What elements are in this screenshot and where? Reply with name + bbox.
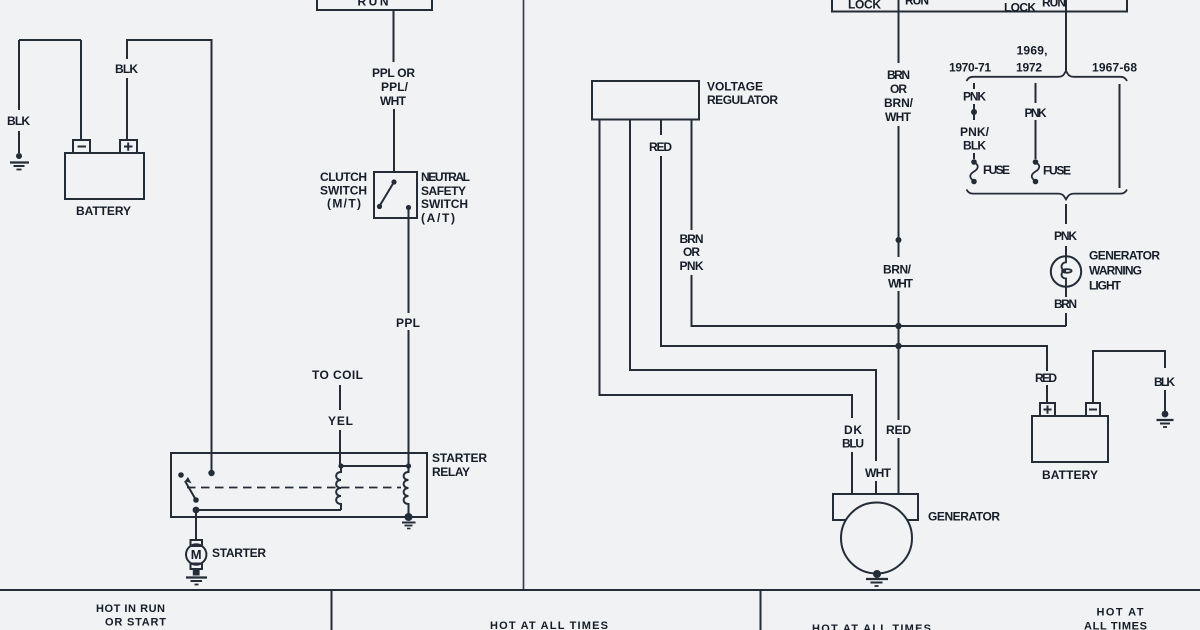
svg-text:PNK: PNK <box>963 90 986 104</box>
svg-text:ALL TIMES: ALL TIMES <box>1084 621 1147 630</box>
svg-text:BLU: BLU <box>842 437 864 451</box>
svg-text:HOT AT: HOT AT <box>1097 607 1144 619</box>
svg-text:BLK: BLK <box>7 114 30 128</box>
svg-text:PNK: PNK <box>1054 229 1077 243</box>
svg-text:RUN: RUN <box>905 0 929 8</box>
svg-text:1969,: 1969, <box>1017 44 1048 58</box>
svg-text:WHT: WHT <box>888 277 914 291</box>
svg-text:OR: OR <box>683 245 700 259</box>
svg-text:BRN: BRN <box>1054 297 1077 311</box>
svg-text:SAFETY: SAFETY <box>421 184 466 198</box>
svg-text:GENERATOR: GENERATOR <box>928 510 1000 524</box>
svg-text:RELAY: RELAY <box>432 465 470 479</box>
svg-text:LIGHT: LIGHT <box>1089 279 1122 293</box>
svg-text:PNK: PNK <box>680 259 704 273</box>
svg-text:LOCK: LOCK <box>1004 1 1036 15</box>
svg-text:SWITCH: SWITCH <box>320 184 367 198</box>
svg-text:PNK: PNK <box>1025 106 1047 120</box>
svg-text:BATTERY: BATTERY <box>1042 468 1098 482</box>
svg-text:BRN: BRN <box>887 68 910 82</box>
svg-text:BRN/: BRN/ <box>884 96 914 110</box>
svg-text:VOLTAGE: VOLTAGE <box>707 80 763 94</box>
svg-text:FUSE: FUSE <box>1043 164 1071 178</box>
svg-text:OR: OR <box>890 82 907 96</box>
svg-text:WHT: WHT <box>865 466 892 480</box>
svg-text:WARNING: WARNING <box>1089 264 1142 278</box>
svg-text:BLK: BLK <box>1154 375 1175 389</box>
svg-text:STARTER: STARTER <box>432 451 487 465</box>
svg-text:PPL OR: PPL OR <box>372 66 415 80</box>
svg-text:BATTERY: BATTERY <box>76 204 131 218</box>
svg-text:BRN/: BRN/ <box>883 263 912 277</box>
svg-text:DK: DK <box>844 423 862 437</box>
svg-text:REGULATOR: REGULATOR <box>707 93 778 107</box>
svg-text:PNK/: PNK/ <box>960 125 990 139</box>
svg-text:PPL: PPL <box>396 316 420 330</box>
svg-text:RUN: RUN <box>1042 0 1066 10</box>
svg-text:1972: 1972 <box>1016 61 1042 75</box>
svg-text:FUSE: FUSE <box>983 163 1010 177</box>
svg-text:RUN: RUN <box>358 0 389 9</box>
svg-text:RED: RED <box>1035 371 1057 385</box>
svg-text:BLK: BLK <box>115 62 138 76</box>
svg-text:SWITCH: SWITCH <box>421 197 468 211</box>
svg-text:CLUTCH: CLUTCH <box>320 170 367 184</box>
svg-text:WHT: WHT <box>380 94 407 108</box>
svg-text:YEL: YEL <box>328 414 353 428</box>
svg-text:BLK: BLK <box>963 139 986 153</box>
svg-text:1967-68: 1967-68 <box>1092 61 1137 75</box>
svg-text:HOT IN RUN: HOT IN RUN <box>96 603 165 615</box>
svg-text:M: M <box>191 547 202 562</box>
svg-text:STARTER: STARTER <box>212 546 266 560</box>
svg-text:LOCK: LOCK <box>848 0 881 12</box>
svg-text:1970-71: 1970-71 <box>949 61 991 75</box>
svg-text:BRN: BRN <box>680 232 704 246</box>
svg-text:OR START: OR START <box>105 617 166 629</box>
svg-text:NEUTRAL: NEUTRAL <box>421 170 470 184</box>
svg-text:TO COIL: TO COIL <box>312 368 363 382</box>
svg-text:RED: RED <box>886 423 911 437</box>
svg-text:WHT: WHT <box>885 110 912 124</box>
svg-text:HOT AT ALL TIMES: HOT AT ALL TIMES <box>490 620 608 630</box>
svg-text:PPL/: PPL/ <box>381 80 409 94</box>
svg-text:RED: RED <box>649 140 672 154</box>
svg-text:GENERATOR: GENERATOR <box>1089 249 1160 263</box>
